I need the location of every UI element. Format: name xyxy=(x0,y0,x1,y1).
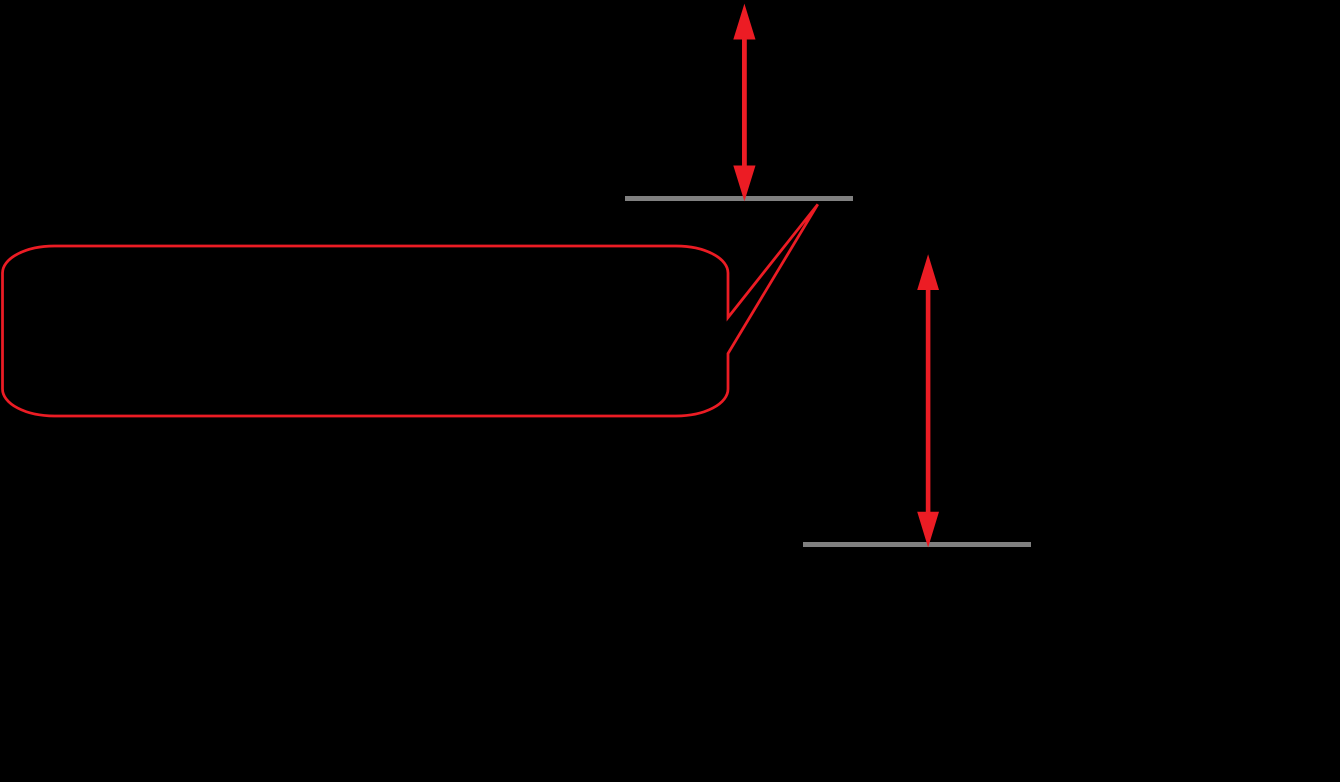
top transition double arrow xyxy=(733,4,755,202)
lower energy level line xyxy=(803,542,1031,547)
upper energy level line xyxy=(625,196,853,201)
lower transition double arrow xyxy=(917,254,939,547)
red rounded-rectangle callout with pointer tail xyxy=(3,204,818,416)
